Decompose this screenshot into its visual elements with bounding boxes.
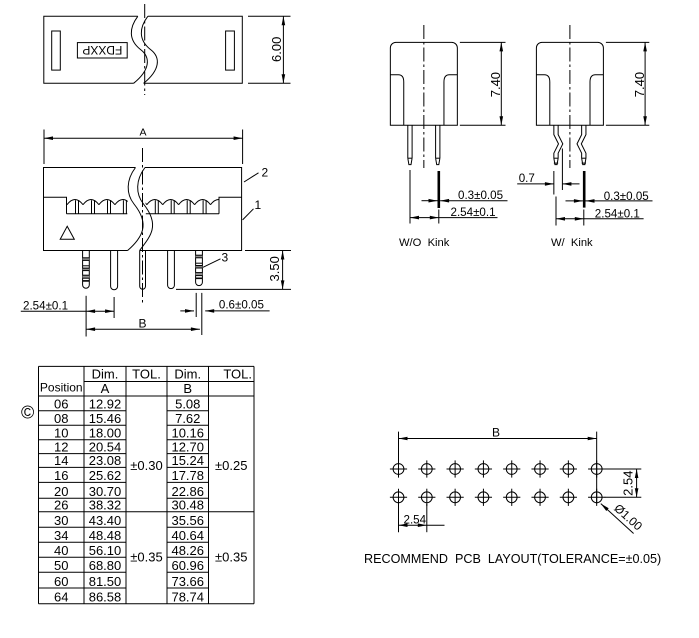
svg-text:38.32: 38.32 — [89, 498, 122, 513]
svg-text:10.16: 10.16 — [171, 426, 204, 441]
svg-text:10: 10 — [54, 426, 68, 441]
svg-text:48.26: 48.26 — [171, 543, 204, 558]
svg-text:1: 1 — [255, 198, 262, 212]
svg-text:68.80: 68.80 — [89, 558, 122, 573]
svg-text:A: A — [101, 381, 110, 396]
svg-text:Dim.: Dim. — [174, 366, 201, 381]
svg-text:A: A — [139, 126, 146, 138]
svg-text:2: 2 — [262, 165, 269, 179]
svg-text:48.48: 48.48 — [89, 528, 122, 543]
svg-text:40: 40 — [54, 543, 68, 558]
svg-text:±0.35: ±0.35 — [130, 550, 162, 565]
svg-text:81.50: 81.50 — [89, 574, 122, 589]
svg-text:Position: Position — [40, 380, 83, 394]
svg-text:60: 60 — [54, 574, 68, 589]
svg-text:FDXXP: FDXXP — [82, 43, 122, 57]
svg-text:12: 12 — [54, 439, 68, 454]
svg-text:±0.35: ±0.35 — [215, 550, 247, 565]
svg-text:0.7: 0.7 — [519, 172, 535, 185]
svg-text:16: 16 — [54, 468, 68, 483]
svg-text:2.54±0.1: 2.54±0.1 — [451, 206, 496, 219]
svg-text:86.58: 86.58 — [89, 590, 122, 605]
svg-text:±0.30: ±0.30 — [130, 458, 162, 473]
svg-text:0.6±0.05: 0.6±0.05 — [219, 298, 264, 311]
svg-text:60.96: 60.96 — [171, 558, 204, 573]
svg-text:W/ Kink: W/ Kink — [551, 237, 593, 249]
svg-text:73.66: 73.66 — [171, 574, 204, 589]
svg-text:3: 3 — [222, 250, 229, 264]
svg-text:12.70: 12.70 — [171, 439, 204, 454]
svg-text:TOL.: TOL. — [223, 366, 252, 381]
svg-text:23.08: 23.08 — [89, 453, 122, 468]
svg-text:50: 50 — [54, 558, 68, 573]
svg-text:20.54: 20.54 — [89, 439, 122, 454]
svg-text:W/O Kink: W/O Kink — [399, 237, 450, 249]
svg-text:35.56: 35.56 — [171, 513, 204, 528]
svg-text:2.54: 2.54 — [404, 513, 427, 526]
svg-text:15.46: 15.46 — [89, 411, 122, 426]
svg-text:7.62: 7.62 — [175, 411, 200, 426]
svg-text:34: 34 — [54, 528, 68, 543]
svg-text:26: 26 — [54, 498, 68, 513]
svg-text:43.40: 43.40 — [89, 513, 122, 528]
svg-text:B: B — [183, 381, 192, 396]
svg-text:0.3±0.05: 0.3±0.05 — [604, 190, 649, 203]
svg-text:64: 64 — [54, 590, 68, 605]
svg-text:30.48: 30.48 — [171, 498, 204, 513]
svg-text:25.62: 25.62 — [89, 468, 122, 483]
svg-text:14: 14 — [54, 453, 68, 468]
svg-text:15.24: 15.24 — [171, 453, 204, 468]
svg-text:B: B — [492, 426, 500, 440]
svg-text:06: 06 — [54, 397, 68, 412]
svg-text:7.40: 7.40 — [488, 72, 503, 97]
svg-text:5.08: 5.08 — [175, 397, 200, 412]
svg-text:2.54±0.1: 2.54±0.1 — [595, 207, 640, 220]
svg-text:©: © — [21, 402, 34, 422]
svg-text:08: 08 — [54, 411, 68, 426]
svg-text:2.54±0.1: 2.54±0.1 — [23, 299, 68, 312]
svg-text:0.3±0.05: 0.3±0.05 — [458, 189, 503, 202]
svg-text:78.74: 78.74 — [171, 590, 204, 605]
svg-text:TOL.: TOL. — [132, 366, 161, 381]
svg-text:17.78: 17.78 — [171, 468, 204, 483]
svg-text:7.40: 7.40 — [632, 72, 647, 97]
svg-text:2.54: 2.54 — [621, 471, 636, 496]
svg-text:RECOMMEND PCB LAYOUT(TOLERAN: RECOMMEND PCB LAYOUT(TOLERANCE=±0.05) — [364, 552, 661, 566]
svg-text:6.00: 6.00 — [269, 37, 284, 62]
svg-text:56.10: 56.10 — [89, 543, 122, 558]
svg-text:3.50: 3.50 — [267, 256, 282, 281]
svg-text:40.64: 40.64 — [171, 528, 204, 543]
svg-text:B: B — [138, 317, 146, 331]
svg-text:Dim.: Dim. — [92, 366, 119, 381]
svg-text:18.00: 18.00 — [89, 426, 122, 441]
svg-text:30: 30 — [54, 513, 68, 528]
svg-text:±0.25: ±0.25 — [215, 458, 247, 473]
svg-text:12.92: 12.92 — [89, 397, 122, 412]
